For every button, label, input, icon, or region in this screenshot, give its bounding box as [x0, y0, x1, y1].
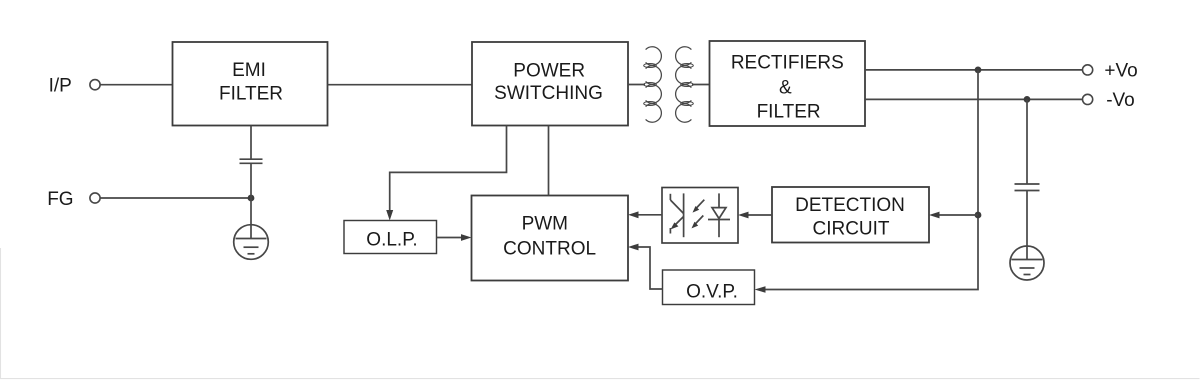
svg-text:EMI: EMI: [232, 60, 266, 81]
wire POWER SWITCHING down to PWM CONTROL: [548, 126, 550, 196]
capacitor C1 Y-cap: [240, 158, 263, 160]
svg-text:DETECTION: DETECTION: [795, 195, 905, 216]
block POWER SWITCHING box: [472, 42, 628, 126]
wire POWER SWITCHING elbow to O.L.P. with arrow: [390, 126, 507, 217]
svg-text:O.V.P.: O.V.P.: [686, 282, 738, 303]
wire opto to PWM CONTROL with arrow: [632, 214, 662, 216]
node -Vo terminal: [1083, 94, 1093, 104]
node FG junction dot: [248, 195, 255, 202]
wire DETECTION to opto with arrow: [742, 214, 772, 216]
svg-text:CONTROL: CONTROL: [503, 238, 596, 259]
wire junction to DETECTION CIRCUIT with arrow: [933, 214, 978, 216]
wire POWER SWITCHING to transformer primary: [628, 84, 645, 86]
wire EMI FILTER down to capacitor: [250, 126, 252, 159]
svg-text:FILTER: FILTER: [757, 102, 821, 123]
block O.V.P. box: [663, 270, 755, 305]
opto-coupler U1 box: [662, 188, 738, 244]
svg-text:FILTER: FILTER: [219, 84, 283, 105]
node junction on +Vo rail: [975, 67, 982, 74]
svg-text:CIRCUIT: CIRCUIT: [812, 219, 889, 240]
node junction feedback to detection: [975, 212, 982, 219]
opto light arrows: [692, 200, 705, 229]
wire O.L.P. to PWM CONTROL with arrow: [437, 237, 468, 239]
wire arrow into O.V.P. right edge: [755, 286, 766, 293]
node I/P terminal: [90, 80, 100, 90]
ground earth symbol right: [1010, 246, 1044, 280]
svg-text:PWM: PWM: [522, 214, 568, 235]
wire feedback vertical from +Vo rail: [759, 70, 979, 290]
resistor EMI FILTER box: [173, 42, 328, 126]
svg-text:-Vo: -Vo: [1106, 90, 1135, 111]
svg-text:&: &: [779, 77, 792, 98]
node +Vo terminal: [1083, 65, 1093, 75]
node FG terminal: [90, 193, 100, 203]
svg-text:+Vo: +Vo: [1104, 61, 1137, 82]
transformer T1 secondary winding: [676, 47, 694, 122]
wire +Vo rail: [865, 69, 1082, 71]
svg-text:I/P: I/P: [49, 75, 72, 96]
wire -Vo rail: [865, 98, 1082, 100]
svg-text:RECTIFIERS: RECTIFIERS: [731, 53, 844, 74]
wire transformer secondary to RECTIFIERS: [692, 84, 710, 86]
svg-text:SWITCHING: SWITCHING: [494, 83, 603, 104]
wire -Vo down to capacitor: [1026, 99, 1028, 183]
wire EMI FILTER to POWER SWITCHING: [328, 84, 473, 86]
wire I/P to EMI FILTER: [100, 84, 172, 86]
wire capacitor to ground: [1026, 191, 1028, 260]
svg-text:POWER: POWER: [513, 60, 585, 81]
svg-text:FG: FG: [47, 189, 73, 210]
ground earth symbol left: [234, 225, 269, 260]
opto phototransistor: [670, 193, 683, 237]
opto LED: [708, 193, 730, 237]
block O.L.P. box: [344, 221, 437, 254]
wire O.V.P. to PWM CONTROL with arrow: [632, 247, 663, 289]
wire FG to junction: [100, 197, 251, 199]
svg-text:O.L.P.: O.L.P.: [366, 230, 417, 251]
wire capacitor through FG junction to ground: [250, 163, 252, 238]
capacitor C2 output: [1015, 183, 1040, 185]
transformer T1 primary winding: [644, 47, 662, 122]
block RECTIFIERS & FILTER box: [710, 41, 866, 126]
faint page border bottom: [1, 248, 1200, 379]
node junction on -Vo rail: [1024, 96, 1031, 103]
block DETECTION CIRCUIT box: [772, 187, 929, 243]
block PWM CONTROL box: [472, 196, 629, 281]
